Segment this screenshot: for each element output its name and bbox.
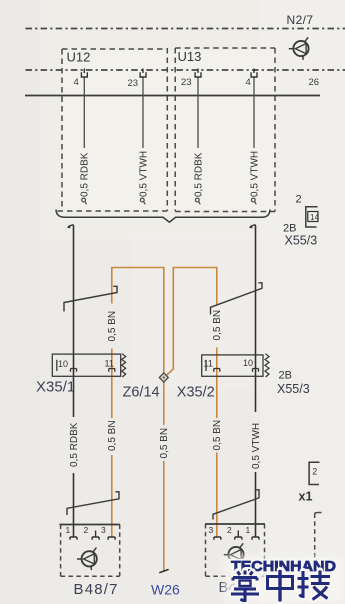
svg-text:0,5 RDBK: 0,5 RDBK bbox=[193, 152, 204, 197]
svg-text:0,5 BN: 0,5 BN bbox=[107, 311, 118, 342]
svg-text:1: 1 bbox=[66, 525, 71, 535]
svg-text:0,5 RDBK: 0,5 RDBK bbox=[80, 152, 91, 197]
svg-text:B48/7: B48/7 bbox=[74, 581, 119, 598]
svg-text:0,5 RDBK: 0,5 RDBK bbox=[69, 422, 80, 467]
svg-text:X55/3: X55/3 bbox=[277, 382, 310, 396]
svg-text:2: 2 bbox=[227, 525, 232, 535]
svg-text:3: 3 bbox=[101, 525, 106, 535]
svg-text:0,5 BN: 0,5 BN bbox=[212, 420, 223, 451]
svg-text:Z6/14: Z6/14 bbox=[123, 385, 160, 401]
svg-text:23: 23 bbox=[128, 78, 139, 89]
svg-text:X55/3: X55/3 bbox=[285, 234, 318, 248]
svg-text:x1: x1 bbox=[299, 490, 313, 504]
svg-text:0,5 VTWH: 0,5 VTWH bbox=[138, 151, 149, 197]
svg-text:14: 14 bbox=[310, 213, 319, 222]
svg-text:U12: U12 bbox=[67, 50, 91, 65]
svg-text:2: 2 bbox=[312, 467, 317, 477]
svg-text:0,5 VTWH: 0,5 VTWH bbox=[251, 423, 262, 469]
svg-text:3: 3 bbox=[209, 525, 214, 535]
svg-text:10: 10 bbox=[58, 359, 68, 369]
svg-text:23: 23 bbox=[181, 77, 192, 88]
svg-text:0,5 VTWH: 0,5 VTWH bbox=[249, 151, 260, 197]
svg-text:0,5 BN: 0,5 BN bbox=[212, 310, 223, 341]
svg-text:N2/7: N2/7 bbox=[287, 13, 314, 27]
svg-text:0,5 BN: 0,5 BN bbox=[159, 428, 170, 459]
svg-text:0,5 BN: 0,5 BN bbox=[107, 420, 118, 451]
svg-text:11: 11 bbox=[204, 359, 213, 369]
svg-text:2: 2 bbox=[84, 525, 89, 535]
svg-text:4: 4 bbox=[74, 77, 79, 88]
svg-text:1: 1 bbox=[246, 525, 251, 535]
svg-text:X35/1: X35/1 bbox=[36, 379, 75, 396]
svg-text:U13: U13 bbox=[178, 49, 202, 64]
svg-text:2B: 2B bbox=[279, 370, 292, 382]
svg-text:4: 4 bbox=[246, 77, 251, 88]
svg-text:11: 11 bbox=[105, 359, 114, 369]
svg-text:X35/2: X35/2 bbox=[177, 385, 215, 401]
svg-text:26: 26 bbox=[309, 77, 320, 88]
svg-text:2: 2 bbox=[296, 194, 302, 206]
svg-text:W26: W26 bbox=[151, 582, 180, 598]
svg-text:10: 10 bbox=[243, 358, 253, 368]
